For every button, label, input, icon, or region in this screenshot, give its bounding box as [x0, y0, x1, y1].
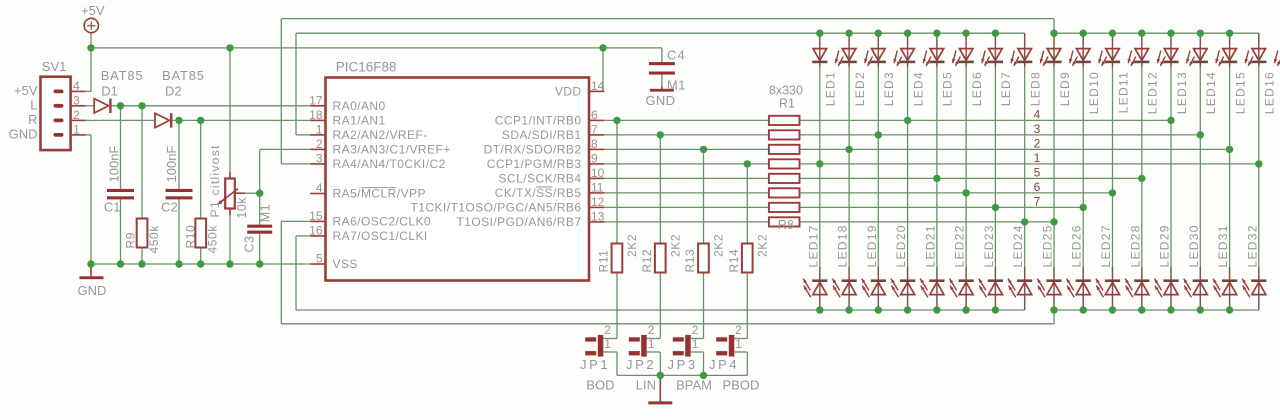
svg-text:LED32: LED32 [1245, 224, 1259, 267]
svg-text:2: 2 [604, 323, 611, 337]
svg-text:4: 4 [1034, 108, 1041, 122]
svg-text:LED17: LED17 [806, 224, 820, 267]
svg-text:2: 2 [1034, 137, 1041, 151]
svg-text:1: 1 [604, 337, 611, 351]
svg-text:LED25: LED25 [1041, 224, 1055, 267]
svg-text:R12: R12 [640, 249, 654, 273]
svg-text:LED9: LED9 [1058, 71, 1072, 106]
svg-text:JP3: JP3 [668, 357, 698, 372]
svg-text:1: 1 [648, 337, 655, 351]
svg-text:+5V: +5V [14, 83, 38, 98]
svg-text:LED30: LED30 [1187, 224, 1201, 267]
svg-text:SDA/SDI/RB1: SDA/SDI/RB1 [502, 128, 582, 142]
svg-text:BOD: BOD [586, 378, 614, 393]
svg-text:100nF: 100nF [106, 146, 121, 183]
svg-text:LED3: LED3 [882, 71, 896, 106]
svg-text:D1: D1 [101, 84, 118, 99]
svg-text:T1OSI/PGD/AN6/RB7: T1OSI/PGD/AN6/RB7 [456, 215, 581, 229]
svg-text:CCP1/PGM/RB3: CCP1/PGM/RB3 [487, 157, 582, 171]
svg-text:5: 5 [1034, 166, 1041, 180]
svg-text:3: 3 [1034, 122, 1041, 136]
svg-text:17: 17 [309, 93, 323, 107]
svg-text:LED29: LED29 [1158, 224, 1172, 267]
svg-text:RA7/OSC1/CLKI: RA7/OSC1/CLKI [333, 229, 428, 243]
svg-text:JP1: JP1 [580, 357, 610, 372]
svg-text:M1: M1 [667, 77, 686, 92]
svg-text:PBOD: PBOD [723, 378, 760, 393]
svg-text:+5V: +5V [81, 3, 105, 18]
svg-text:SV1: SV1 [42, 59, 67, 74]
svg-text:BAT85: BAT85 [101, 68, 144, 83]
svg-text:RA2/AN2/VREF-: RA2/AN2/VREF- [333, 128, 428, 142]
svg-text:CCP1/INT/RB0: CCP1/INT/RB0 [495, 113, 582, 127]
svg-text:LED22: LED22 [953, 224, 967, 267]
svg-text:3: 3 [316, 151, 323, 165]
svg-text:2: 2 [316, 137, 323, 151]
svg-text:LED5: LED5 [941, 71, 955, 106]
svg-text:LED26: LED26 [1070, 224, 1084, 267]
svg-text:7: 7 [1034, 195, 1041, 209]
svg-text:LED28: LED28 [1128, 224, 1142, 267]
svg-text:LED20: LED20 [894, 224, 908, 267]
svg-text:C2: C2 [161, 200, 178, 215]
svg-text:RA5/MCLR/VPP: RA5/MCLR/VPP [333, 187, 426, 201]
svg-text:LED8: LED8 [1029, 71, 1043, 106]
svg-text:12: 12 [591, 195, 605, 209]
svg-text:VDD: VDD [555, 84, 582, 98]
svg-text:LIN: LIN [636, 378, 656, 393]
svg-text:LED23: LED23 [982, 224, 996, 267]
svg-text:LED15: LED15 [1233, 71, 1247, 114]
svg-text:JP2: JP2 [626, 357, 656, 372]
svg-text:1: 1 [735, 337, 742, 351]
svg-text:R9: R9 [124, 232, 138, 249]
svg-text:6: 6 [591, 108, 598, 122]
svg-text:2K2: 2K2 [668, 234, 682, 257]
svg-text:C3: C3 [243, 236, 257, 253]
svg-text:2: 2 [735, 323, 742, 337]
svg-text:6: 6 [1034, 180, 1041, 194]
svg-text:8: 8 [591, 137, 598, 151]
svg-text:L: L [30, 97, 37, 112]
svg-text:GND: GND [646, 93, 676, 108]
svg-text:R13: R13 [683, 249, 697, 273]
svg-text:R8: R8 [778, 218, 794, 232]
svg-text:9: 9 [591, 151, 598, 165]
svg-text:RA4/AN4/T0CKI/C2: RA4/AN4/T0CKI/C2 [333, 157, 446, 171]
svg-text:16: 16 [309, 223, 323, 237]
svg-text:PIC16F88: PIC16F88 [336, 60, 397, 75]
svg-text:GND: GND [78, 283, 107, 298]
svg-text:LED2: LED2 [853, 71, 867, 106]
svg-text:LED21: LED21 [923, 224, 937, 267]
svg-text:LED24: LED24 [1011, 224, 1025, 267]
svg-text:RA0/AN0: RA0/AN0 [333, 99, 386, 113]
svg-text:R14: R14 [727, 249, 741, 273]
svg-text:RA6/OSC2/CLK0: RA6/OSC2/CLK0 [333, 214, 432, 228]
svg-text:450k: 450k [147, 225, 161, 254]
svg-text:VSS: VSS [333, 257, 358, 271]
svg-text:DT/RX/SDO/RB2: DT/RX/SDO/RB2 [484, 142, 582, 156]
svg-text:14: 14 [591, 79, 605, 93]
svg-text:2K2: 2K2 [625, 234, 639, 257]
svg-text:LED14: LED14 [1204, 71, 1218, 114]
svg-text:BPAM: BPAM [676, 378, 712, 393]
svg-text:4: 4 [316, 181, 323, 195]
svg-text:3: 3 [73, 93, 80, 107]
svg-text:18: 18 [309, 108, 323, 122]
svg-text:LED7: LED7 [999, 71, 1013, 106]
svg-text:LED16: LED16 [1263, 71, 1277, 114]
svg-text:RA1/AN1: RA1/AN1 [333, 113, 386, 127]
svg-text:2: 2 [73, 108, 80, 122]
svg-text:7: 7 [591, 122, 598, 136]
svg-text:1: 1 [692, 337, 699, 351]
svg-text:C1: C1 [104, 200, 121, 215]
svg-text:LED12: LED12 [1146, 71, 1160, 114]
svg-text:1: 1 [316, 122, 323, 136]
svg-text:8x330: 8x330 [769, 84, 803, 98]
svg-text:100nF: 100nF [164, 146, 179, 183]
svg-text:CK/TX/SS/RB5: CK/TX/SS/RB5 [495, 186, 582, 200]
svg-text:450k: 450k [205, 225, 219, 254]
svg-text:LED19: LED19 [865, 224, 879, 267]
svg-text:5: 5 [316, 252, 323, 266]
svg-text:1: 1 [73, 122, 80, 136]
svg-text:C4: C4 [667, 48, 686, 63]
svg-text:15: 15 [309, 209, 323, 223]
svg-text:LED4: LED4 [911, 71, 925, 106]
svg-text:P1 citlivost: P1 citlivost [208, 144, 222, 217]
svg-text:11: 11 [591, 180, 604, 194]
svg-text:2: 2 [692, 323, 699, 337]
svg-text:1: 1 [1034, 151, 1041, 165]
svg-text:M1: M1 [258, 204, 272, 222]
svg-text:2K2: 2K2 [755, 234, 769, 257]
svg-text:R11: R11 [597, 250, 611, 273]
svg-text:10: 10 [591, 166, 605, 180]
svg-text:R1: R1 [779, 97, 795, 111]
svg-text:BAT85: BAT85 [162, 68, 205, 83]
svg-text:LED18: LED18 [836, 224, 850, 267]
svg-text:LED31: LED31 [1216, 224, 1230, 267]
svg-text:LED10: LED10 [1087, 71, 1101, 114]
svg-text:2K2: 2K2 [712, 234, 726, 257]
svg-text:JP4: JP4 [709, 357, 739, 372]
svg-text:GND: GND [9, 126, 38, 141]
svg-text:LED27: LED27 [1099, 224, 1113, 267]
svg-text:10k: 10k [235, 197, 249, 219]
svg-text:LED6: LED6 [970, 71, 984, 106]
svg-text:LED1: LED1 [824, 71, 838, 106]
svg-text:4: 4 [73, 79, 80, 93]
svg-text:R: R [28, 112, 37, 127]
svg-text:LED13: LED13 [1175, 71, 1189, 114]
svg-text:D2: D2 [165, 84, 182, 99]
svg-text:2: 2 [648, 323, 655, 337]
svg-text:13: 13 [591, 209, 605, 223]
svg-text:SCL/SCK/RB4: SCL/SCK/RB4 [499, 171, 582, 185]
svg-text:RA3/AN3/C1/VREF+: RA3/AN3/C1/VREF+ [333, 142, 451, 156]
svg-text:LED11: LED11 [1116, 71, 1130, 113]
svg-text:R10: R10 [184, 225, 198, 249]
svg-text:T1CKI/T1OSO/PGC/AN5/RB6: T1CKI/T1OSO/PGC/AN5/RB6 [410, 200, 581, 214]
